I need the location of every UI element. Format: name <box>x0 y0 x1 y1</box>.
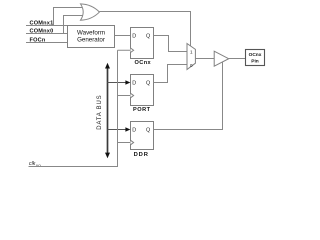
wire mux output to buffer <box>195 58 214 60</box>
svg-text:Generator: Generator <box>77 37 105 44</box>
svg-text:1: 1 <box>190 50 193 55</box>
label FOCn <box>30 38 46 44</box>
svg-text:Pin: Pin <box>251 58 259 64</box>
svg-text:D: D <box>132 80 136 86</box>
data bus arrow <box>105 63 110 159</box>
wire buffer output to OCnx pin <box>229 58 246 60</box>
wire FOCn to waveform generator <box>26 42 68 44</box>
svg-text:COMnx0: COMnx0 <box>30 29 54 35</box>
wire OCnx Q to mux input 1 <box>154 36 188 52</box>
svg-text:D: D <box>132 127 136 133</box>
mux <box>187 44 195 70</box>
flip-flop PORT <box>131 75 154 106</box>
svg-text:DATA BUS: DATA BUS <box>97 95 103 130</box>
svg-text:Waveform: Waveform <box>77 29 105 36</box>
wire clock stub to PORT clock <box>118 95 131 97</box>
wire data bus to PORT D input <box>108 80 131 84</box>
wire PORT Q to mux input 0 <box>154 65 188 83</box>
label COMnx1 <box>30 21 54 27</box>
label OCnx <box>135 60 152 66</box>
label clk I/O <box>29 161 41 168</box>
tri-state buffer <box>214 51 229 66</box>
wire DDR Q to buffer enable <box>154 62 223 130</box>
label DDR <box>134 152 149 158</box>
OCnx pin box <box>246 50 265 66</box>
svg-text:Q: Q <box>146 80 150 86</box>
or-gate (COMnx1 + COMnx0) <box>81 4 100 20</box>
wire data bus to DDR D input <box>108 127 131 131</box>
label PORT <box>133 107 151 113</box>
wire waveform generator to OCnx D input <box>115 35 131 37</box>
flip-flop OCnx <box>131 28 154 59</box>
wire COMnx0 to waveform generator <box>26 33 68 35</box>
svg-text:COMnx1: COMnx1 <box>30 21 54 27</box>
label DATA BUS <box>97 95 103 130</box>
svg-text:OCnx: OCnx <box>249 52 262 58</box>
svg-text:D: D <box>132 33 136 39</box>
wire OR output to mux select <box>99 12 190 47</box>
label COMnx0 <box>30 29 54 35</box>
wire clk to flip-flop clock riser <box>29 50 118 166</box>
wire COMnx0 riser to OR gate input B <box>64 16 85 34</box>
svg-text:OCnx: OCnx <box>135 60 152 66</box>
svg-text:FOCn: FOCn <box>30 38 46 44</box>
svg-text:Q: Q <box>146 127 150 133</box>
svg-text:Q: Q <box>146 33 150 39</box>
svg-text:0: 0 <box>190 63 193 68</box>
wire COMnx1 to waveform generator <box>26 25 68 27</box>
wire clock stub to DDR clock <box>118 142 131 144</box>
flip-flop DDR <box>131 122 154 150</box>
waveform generator box <box>68 26 115 48</box>
wire COMnx1 riser to OR gate input A <box>54 8 85 26</box>
svg-text:DDR: DDR <box>134 152 149 158</box>
svg-text:PORT: PORT <box>133 107 151 113</box>
wire clock stub to OCnx clock <box>118 49 131 51</box>
